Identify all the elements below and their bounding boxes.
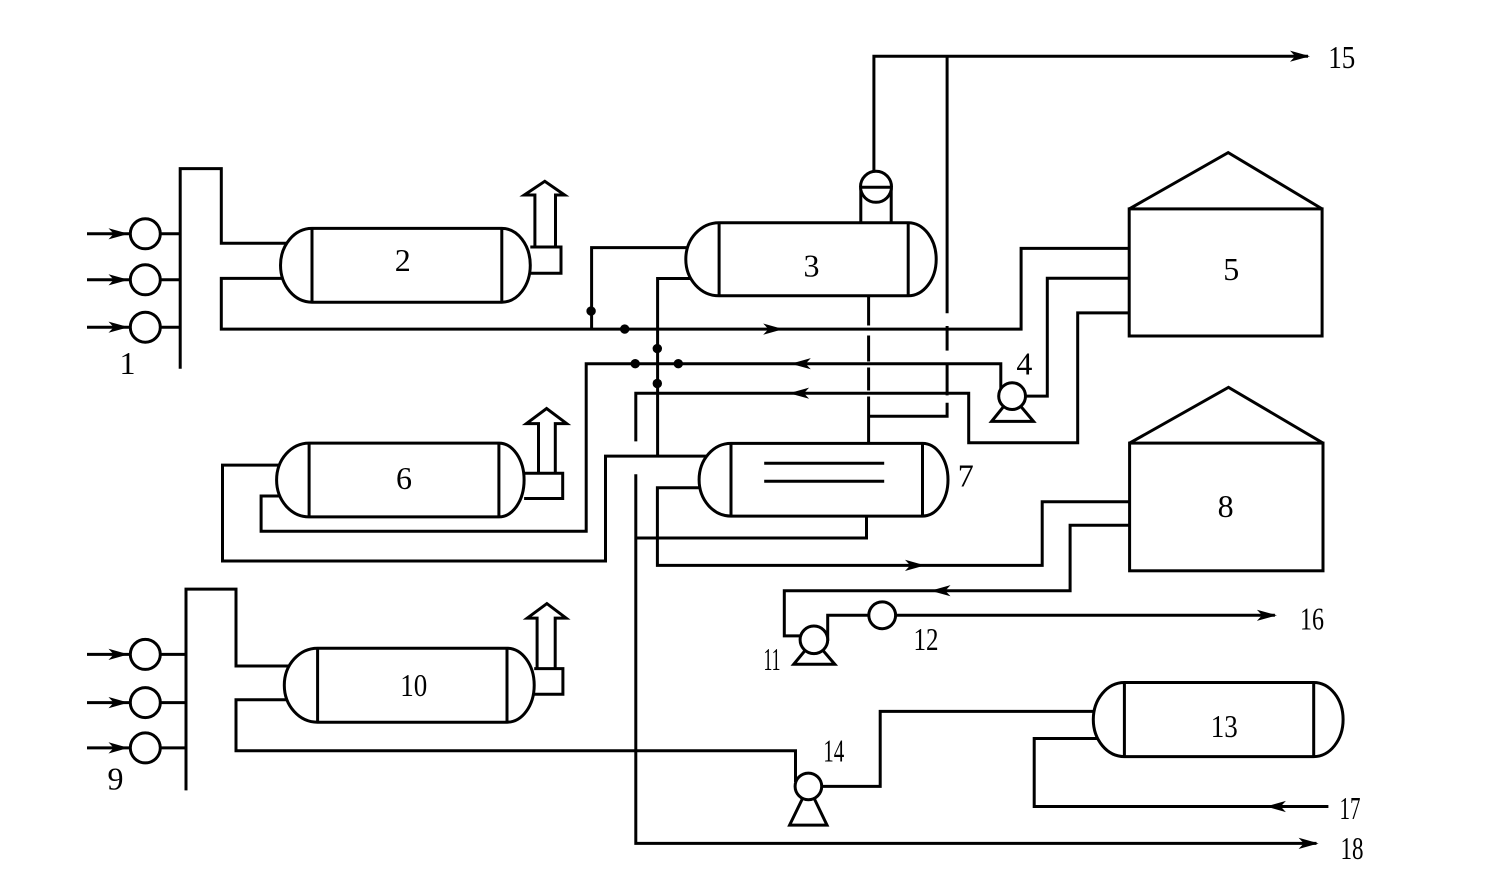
vessel 3 neck [861,188,891,223]
feed circle 1a [130,219,160,249]
arrowhead on line to storage 5 [763,324,783,335]
arrowhead to outlet 18 [1299,838,1319,849]
arrowhead feed 1a [109,228,129,239]
arrowhead to storage 8 [905,560,925,571]
wire feed line 9b [87,701,186,704]
wire feed line 1a [87,232,180,235]
svg-text:7: 7 [958,457,974,493]
junction dot: node on vessel-3 branch [586,306,595,315]
junction dot: node above crossing [653,344,662,353]
wire storage 8 port E to pump 11 suction [784,525,1129,636]
wire feed line 9c [87,746,186,749]
junction dot: node left of crossing [631,359,640,368]
vessel 2 [281,228,531,302]
arrowhead feed 1c [109,322,129,333]
pump 4 [992,383,1034,422]
svg-text:17: 17 [1340,790,1361,826]
arrowhead to outlet 15 [1290,51,1310,62]
wire pump 14 discharge to vessel 13 inlet [808,711,1105,786]
wire pump 4 discharge to storage 5 port B [1012,278,1129,396]
vessel 2 vent nozzle [530,247,561,273]
svg-text:9: 9 [108,761,124,797]
vessel 6 vent nozzle [524,473,563,498]
svg-text:6: 6 [396,460,412,496]
svg-text:16: 16 [1300,600,1324,636]
wire pump 11 discharge through valve 12 to outlet 16 [828,615,1275,641]
feed circle 9c [130,733,160,763]
vessel 10 [284,648,534,722]
svg-text:1: 1 [120,345,136,381]
wire feed line 9a [87,653,186,656]
svg-text:10: 10 [400,667,427,703]
heat exchanger 7 [699,443,948,516]
svg-text:5: 5 [1223,251,1239,287]
svg-text:15: 15 [1328,39,1355,75]
vent arrow of vessel 6 [526,409,566,474]
wire branch up to vessel 3 inlet [592,248,700,329]
wire vessel 10 bottom outlet to pump 14 suction [236,700,796,782]
wire storage 5 port C return line down-left-down to outlet 18 [636,313,1129,443]
vessel 13 [1093,683,1343,757]
wire branch from vessel 3 outlet to overhead header [869,403,948,417]
valve circle 12 [869,602,896,629]
manifold header 9 with branch to vessel 10 inlet [186,589,300,790]
arrowhead to pump 11 [931,585,951,596]
vessel 10 vent nozzle [534,669,563,695]
svg-text:11: 11 [764,641,781,677]
vent arrow of vessel 2 [524,181,564,247]
arrowhead feed 1b [109,274,129,285]
svg-text:3: 3 [804,248,820,284]
junction dot: node on long line [620,324,629,333]
junction dot: node below crossing [653,379,662,388]
vessel 3 [686,223,936,296]
exchanger 7 internal tube lines [764,463,884,481]
wire vessel 6 upper feed loop from vessel 7 inlet line [223,456,713,561]
arrowhead return to vessel 6 [791,358,811,369]
feed circle 1b [130,265,160,295]
wire vessel 2 bottom outlet to storage 5 port A (long line) [221,248,1129,329]
feed circle 9b [130,688,160,718]
svg-text:13: 13 [1211,708,1238,744]
arrowhead from inlet 17 [1266,801,1286,812]
storage building 8 [1130,387,1323,571]
wire vessel 3 bottom outlet down to vessel 7 top (with crossover breaks) [867,296,870,326]
manifold header 1 with branch to vessel 2 inlet [180,169,300,369]
gauge circle on vessel 3 neck [861,171,892,202]
feed circle 9a [130,639,160,669]
arrowhead feed 9a [109,649,129,660]
pump 11 [794,626,835,664]
wire vessel 3 lower nozzle down to vessel 6/7 line [658,279,700,457]
wire inlet 17 line into vessel 13 bottom [1034,739,1328,807]
wire vessel 7 bottom outlet joining drain line [636,516,867,538]
vessel 6 [277,443,524,517]
arrowhead to outlet 16 [1257,610,1277,621]
svg-text:4: 4 [1016,345,1032,381]
svg-text:14: 14 [823,733,844,769]
feed circle 1c [130,312,160,342]
pump 14 [790,773,827,825]
wire feed line 1c [87,326,180,329]
wire vessel 7 lower-left nozzle down and right to storage 8 port D [657,488,1129,566]
arrowhead feed 9b [109,697,129,708]
arrowhead feed 9c [109,742,129,753]
svg-text:12: 12 [914,621,939,657]
svg-text:8: 8 [1218,488,1234,524]
wire vessel 6 lower outlet loop to pump 4 suction line [261,364,1001,532]
wire feed line 1b [87,278,180,281]
arrowhead from storage 5 [789,388,809,399]
vent arrow of vessel 10 [527,604,566,669]
wire overhead vapour header from vessel 3 to outlet 15 [874,56,1308,180]
storage building 5 [1129,153,1322,336]
svg-text:18: 18 [1341,830,1364,866]
junction dot: node right of crossing [674,359,683,368]
svg-text:2: 2 [395,242,411,278]
